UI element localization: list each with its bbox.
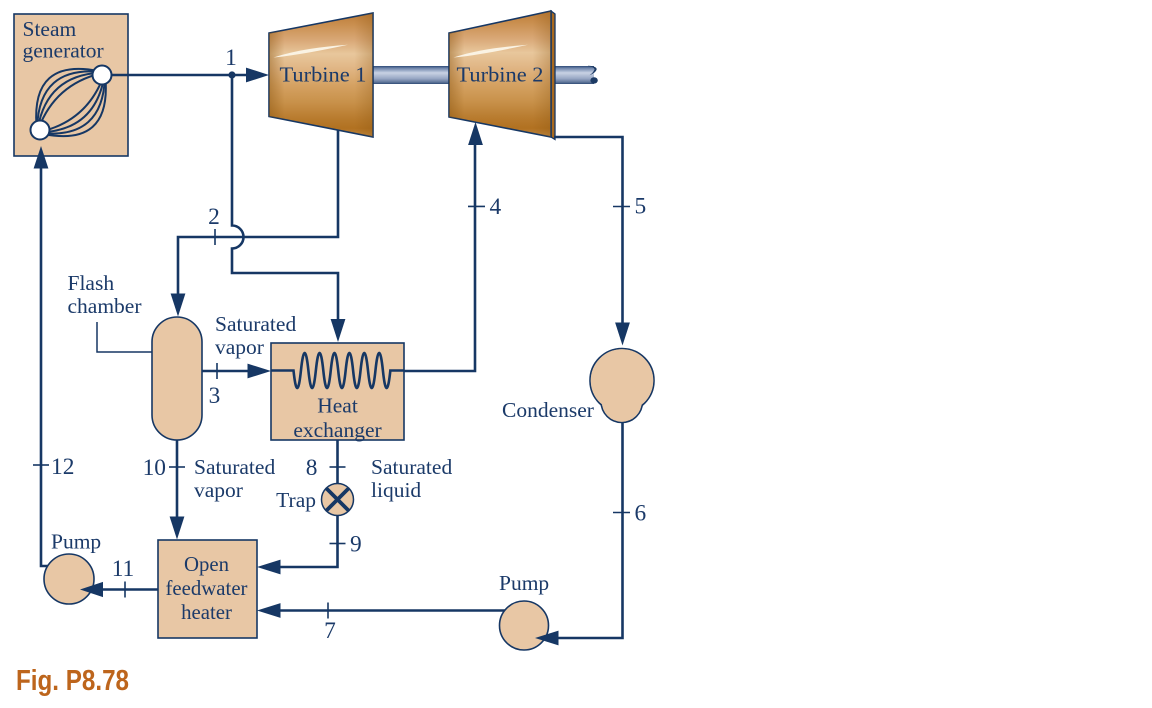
wire 4: heat exchanger to turbine 2 (404, 140, 475, 371)
arrow into steam generator (34, 146, 49, 169)
tick 8 (330, 466, 346, 468)
svg-text:exchanger: exchanger (293, 418, 381, 442)
tick 4 (468, 205, 485, 207)
shaft between turbines (371, 66, 451, 84)
tick 5 (613, 206, 630, 208)
label 11 (112, 556, 135, 582)
arrow into heat exchanger top (331, 319, 346, 342)
heat exchanger label (293, 394, 381, 443)
wire 7: right pump to feedwater heater (262, 609, 520, 612)
svg-text:heater: heater (181, 601, 232, 624)
heat exchanger box (271, 343, 404, 440)
label 1 (225, 45, 237, 71)
label 4 (490, 194, 502, 220)
condenser label (502, 398, 594, 422)
label 9 (350, 532, 362, 558)
left pump (44, 554, 94, 604)
svg-text:Saturated: Saturated (371, 455, 452, 479)
arrow into feedwater heater top (170, 517, 185, 540)
label 10 (143, 455, 166, 481)
wire 2: turbine 1 extraction to flash chamber (178, 130, 338, 298)
arrow into feedwater heater (stream 7) (257, 603, 281, 618)
arrow into turbine 2 bottom (468, 122, 483, 145)
arrow into heat exchanger left (248, 364, 272, 379)
wire 6: condenser to pump (right) (552, 422, 623, 638)
svg-text:Open: Open (184, 553, 230, 576)
arrow into feedwater heater (stream 9) (257, 560, 281, 575)
label saturated liquid (stream 8) (371, 455, 452, 502)
tick 10 (169, 466, 185, 468)
svg-text:Flash: Flash (68, 271, 115, 295)
svg-text:Saturated: Saturated (194, 455, 275, 479)
label 12 (51, 454, 74, 480)
label saturated vapor (stream 3) (215, 312, 296, 359)
svg-text:3: 3 (209, 383, 221, 409)
arrow into condenser (615, 323, 630, 346)
label 5 (635, 194, 647, 220)
figure caption (16, 665, 129, 697)
tick 2 (214, 229, 216, 245)
svg-text:vapor: vapor (215, 335, 264, 359)
right pump label (499, 571, 549, 595)
arrow into left pump (80, 582, 103, 597)
arrow into turbine 1 (246, 68, 269, 83)
svg-text:Saturated: Saturated (215, 312, 296, 336)
svg-text:6: 6 (635, 501, 647, 527)
svg-text:chamber: chamber (68, 294, 142, 318)
steam generator label (23, 17, 104, 63)
label 3 (209, 383, 221, 409)
label 2 (208, 204, 220, 230)
trap valve (322, 484, 354, 516)
svg-text:11: 11 (112, 556, 135, 582)
flash chamber label (68, 271, 142, 318)
right pump (500, 601, 549, 650)
svg-text:Turbine 2: Turbine 2 (457, 63, 544, 87)
wire 8-9: heat exchanger to trap to feedwater heater (262, 440, 338, 567)
node 1 junction dot (228, 71, 235, 78)
wire 1: steam generator to turbine 1 (111, 74, 250, 77)
flash chamber leader line (97, 322, 152, 352)
svg-text:9: 9 (350, 532, 362, 558)
tick 11 (124, 582, 126, 598)
wire 11: feedwater heater to left pump (95, 588, 158, 591)
svg-text:vapor: vapor (194, 478, 243, 502)
tick 3 (216, 363, 218, 379)
wire 12: left pump up to steam generator (41, 168, 60, 566)
tick 9 (330, 543, 346, 545)
left pump label (51, 530, 101, 554)
svg-text:Trap: Trap (276, 488, 316, 512)
tick 6 (613, 512, 630, 514)
turbine T2 (449, 11, 555, 140)
condenser vessel (590, 349, 654, 423)
svg-text:Pump: Pump (51, 530, 101, 554)
wire node1 down with hop over wire 2, to heat exchanger top (232, 75, 338, 324)
svg-text:4: 4 (490, 194, 502, 220)
svg-text:feedwater: feedwater (166, 577, 248, 600)
flash chamber vessel (152, 317, 202, 440)
svg-text:1: 1 (225, 45, 237, 71)
svg-text:8: 8 (306, 455, 318, 481)
svg-text:generator: generator (23, 39, 104, 63)
steam generator drums (31, 66, 112, 140)
label 6 (635, 501, 647, 527)
wire 3: flash chamber to heat exchanger (202, 370, 252, 373)
svg-text:10: 10 (143, 455, 166, 481)
steam generator coil tubes (36, 69, 106, 136)
svg-text:2: 2 (208, 204, 220, 230)
tick 12 (33, 464, 49, 466)
trap label (276, 488, 316, 512)
svg-text:7: 7 (324, 618, 336, 644)
svg-text:5: 5 (635, 194, 647, 220)
wire 5: turbine 2 to condenser (554, 137, 623, 327)
svg-text:Condenser: Condenser (502, 398, 594, 422)
tick 7 (327, 603, 329, 619)
svg-text:liquid: liquid (371, 478, 421, 502)
svg-text:Pump: Pump (499, 571, 549, 595)
shaft right of turbine 2 (553, 66, 598, 84)
svg-text:12: 12 (51, 454, 74, 480)
open feedwater heater box (158, 540, 257, 638)
arrow into right pump (535, 631, 559, 646)
open feedwater heater label (166, 553, 248, 624)
steam generator box (14, 14, 128, 156)
heat exchanger coil (271, 353, 404, 388)
arrow into flash chamber top (171, 294, 186, 317)
label saturated vapor (stream 10) (194, 455, 275, 502)
turbine T1 (269, 13, 373, 137)
svg-text:Steam: Steam (23, 17, 77, 41)
svg-text:Fig. P8.78: Fig. P8.78 (16, 665, 129, 697)
wire 10: flash chamber to feedwater heater (176, 440, 179, 521)
svg-text:Turbine 1: Turbine 1 (280, 63, 367, 87)
svg-text:Heat: Heat (317, 394, 358, 418)
label 8 (306, 455, 318, 481)
label 7 (324, 618, 336, 644)
